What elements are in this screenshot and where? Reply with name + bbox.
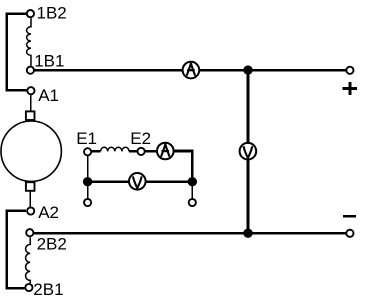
terminal below E1 junction [84, 199, 91, 206]
wire left bus from A2 to 2B1 [7, 211, 26, 289]
wire stub A1 to top brush [30, 95, 32, 112]
wire bottom rail from 2B2 to - terminal [34, 232, 346, 235]
svg-text:E1: E1 [76, 129, 97, 148]
terminal - (bottom right) [346, 230, 353, 237]
voltmeter V main [240, 143, 257, 160]
wire stub bottom brush to A2 [29, 192, 31, 207]
junction node bottom rail [243, 229, 252, 238]
junction node top rail [243, 65, 252, 74]
wire E1 down to field lower rail [87, 156, 89, 182]
brush square top [26, 111, 35, 120]
svg-text:A1: A1 [38, 86, 59, 105]
label + [343, 82, 358, 95]
svg-text:2B2: 2B2 [37, 235, 67, 254]
terminal + (top right) [346, 67, 353, 74]
inductor coil 1B (between 1B2 and 1B1) [27, 18, 31, 66]
terminal 1B1 [27, 67, 34, 74]
wire top rail from ammeter to + terminal [199, 69, 345, 72]
terminal below field-rail right junction [189, 199, 196, 206]
terminal 1B2 [27, 10, 34, 17]
inductor field coil (between E1 and E2) [92, 150, 101, 153]
wire left bus from 1B2 to A1 [7, 14, 27, 91]
ammeter A field [157, 143, 174, 160]
terminal E1 [84, 148, 91, 155]
wire top rail from 1B1 to ammeter A [35, 69, 183, 72]
wire field ammeter to right corner and down [174, 151, 193, 182]
ammeter A main [183, 62, 200, 79]
terminal 2B1 [25, 284, 32, 291]
junction node field rail left [83, 177, 92, 186]
wire stub left junction to terminal [87, 182, 89, 199]
wire main vertical from top junction to bottom junction [247, 70, 250, 233]
motor armature circle [1, 121, 61, 181]
svg-text:1B2: 1B2 [37, 4, 67, 23]
label minus [343, 215, 356, 217]
terminal E2 [138, 148, 145, 155]
terminal 2B2 [26, 229, 33, 236]
voltmeter V field [129, 173, 146, 190]
terminal A1 [27, 87, 34, 94]
inductor coil 2B (between 2B2 and 2B1) [26, 237, 31, 283]
brush square bottom [26, 182, 35, 191]
junction node field rail right [188, 177, 197, 186]
svg-text:E2: E2 [130, 129, 151, 148]
wire field lower rail [88, 180, 193, 183]
terminal A2 [27, 207, 34, 214]
svg-text:1B1: 1B1 [34, 51, 64, 70]
svg-text:A2: A2 [38, 203, 59, 222]
wire stub right junction to terminal [191, 182, 193, 199]
wire E2 to field ammeter [145, 150, 157, 153]
svg-text:2B1: 2B1 [33, 280, 63, 299]
